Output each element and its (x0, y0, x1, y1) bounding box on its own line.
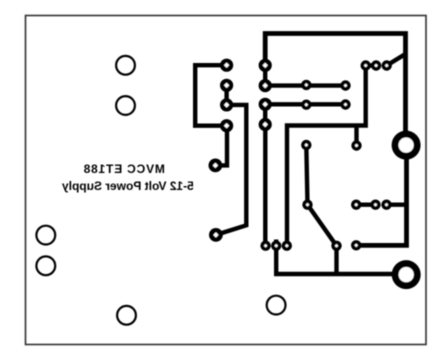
pad P9 (209, 159, 223, 173)
wire W12 diagonal from pad S7 to right rail (387, 54, 406, 66)
pad S8 (301, 140, 311, 150)
wire W9 horizontal through pad S3 to pad S4 (265, 102, 345, 106)
pad S9 (351, 140, 361, 150)
hole H4 (36, 256, 55, 275)
pad P3 (220, 98, 233, 111)
wire W4 from pad P4 down then left to pad P9 (215, 126, 227, 166)
wire W8 horizontal through pad S1 to pad S2 (265, 83, 345, 87)
pad S6 (371, 60, 381, 70)
pad S11 (370, 200, 380, 210)
pad S17 (331, 241, 341, 251)
pad S14 (260, 241, 270, 251)
wire W3 from pad P3 right, down, diagonal to pad P10 (216, 105, 246, 235)
wire W11 long vertical from pad P8 to pad S14 (263, 125, 267, 246)
pad P10 (209, 228, 223, 242)
wire W19 from pad S15 down and right to big pad B2 (276, 240, 406, 275)
wire W6 top rail from pad P5 up, across, down right side to pad S18 (265, 34, 406, 246)
hole H1 (116, 56, 135, 75)
wire W7 between pads P5 and P6 (263, 65, 267, 85)
wire W10 between pads P7 and P8 (263, 104, 267, 124)
pad P7 (259, 98, 272, 111)
pad S1 (301, 80, 311, 90)
pad S16 (282, 241, 292, 251)
pad P6 (259, 79, 272, 92)
pad B1 large ring (392, 131, 421, 160)
pad P5 (259, 59, 272, 72)
pad S5 (361, 60, 371, 70)
svg-text:MVCC ET188: MVCC ET188 (83, 162, 165, 176)
svg-text:5-12 Volt Power Supply: 5-12 Volt Power Supply (62, 179, 194, 193)
wire W1 left C-shape connecting pads P1 and P4 (195, 65, 226, 126)
hole H5 (117, 306, 136, 325)
hole H3 (36, 226, 55, 245)
wire W15 from pad S5 down, left, down to pad S16 (287, 66, 366, 246)
pad S10 (351, 200, 361, 210)
pad S4 (340, 99, 350, 109)
hole H6 (267, 296, 286, 315)
pad S18 (351, 240, 361, 250)
pad S15 (271, 241, 281, 251)
pad B2 large ring (392, 260, 421, 289)
wire W14 between pads S5 and S6 (366, 63, 376, 67)
wire W18 from pad S8 down through S13, diagonal to S17, down to bottom rail (306, 145, 336, 274)
hole H2 (116, 96, 135, 115)
wire W17 between pads S10 and S11 (356, 202, 375, 206)
pad S3 (301, 100, 311, 110)
pad S12 (381, 200, 391, 210)
pad P8 (259, 118, 272, 131)
pad S2 (340, 80, 350, 90)
wire W2 between pads P2 and P3 (224, 85, 228, 105)
wire W13 from pad S12 to right rail (387, 202, 407, 206)
pad P2 (220, 79, 233, 92)
pad S13 (302, 200, 312, 210)
wire W16 stub down to pad S9 (354, 126, 358, 146)
pad P4 (220, 119, 233, 132)
pad P1 (220, 59, 233, 72)
pad S7 (382, 60, 392, 70)
